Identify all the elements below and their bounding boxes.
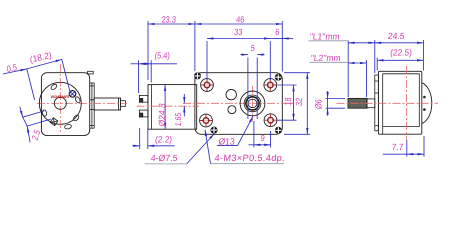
gear axis centerline xyxy=(183,102,294,104)
svg-text:"L2"mm: "L2"mm xyxy=(310,53,341,63)
svg-text:4-Ø7.5: 4-Ø7.5 xyxy=(150,153,178,163)
corner screw BR xyxy=(275,127,282,134)
corner screw TL xyxy=(194,72,201,79)
motor axis centerline xyxy=(137,105,200,107)
diagonal dimension 0.5 / (18.2) xyxy=(3,50,71,100)
svg-text:32: 32 xyxy=(294,97,304,106)
vertical centerline xyxy=(59,64,61,134)
output shaft (left view) xyxy=(94,98,125,110)
terminal 2 xyxy=(139,110,147,117)
mounting boss BL xyxy=(200,114,213,127)
terminal dot 2 xyxy=(423,108,426,111)
svg-text:"L1"mm: "L1"mm xyxy=(309,31,340,41)
gearbox housing (top view) xyxy=(195,73,282,135)
svg-text:7.7: 7.7 xyxy=(391,142,404,152)
output boss circles xyxy=(240,91,265,116)
(2.2) dimension xyxy=(133,128,175,149)
9 dimension xyxy=(249,121,271,148)
svg-text:WONSMART: WONSMART xyxy=(51,95,71,99)
top-right corner step xyxy=(88,71,94,74)
4-M3 label xyxy=(205,130,286,164)
inner recess rect xyxy=(383,74,420,134)
brush box square xyxy=(50,118,58,126)
dia 24.3 dimension xyxy=(157,85,167,130)
svg-text:(5.4): (5.4) xyxy=(154,51,170,61)
motor body (middle view) xyxy=(148,85,197,130)
shaft centerline xyxy=(337,102,439,104)
diagonal dimension 2.5 xyxy=(20,107,51,143)
4-dia7.5 label xyxy=(145,134,215,164)
flange (left view right side) xyxy=(90,83,95,128)
5 dimension xyxy=(241,43,265,119)
svg-text:Ø13: Ø13 xyxy=(218,136,235,146)
center bearing circle xyxy=(54,97,66,109)
dia 6 dimension xyxy=(314,91,345,116)
svg-text:(2.2): (2.2) xyxy=(155,134,173,144)
(22.5) dimension xyxy=(377,47,423,70)
svg-text:24.5: 24.5 xyxy=(387,31,405,41)
motor end cap arc xyxy=(422,83,432,124)
L1 label and dimension xyxy=(309,31,375,97)
mounting boss BR xyxy=(264,114,277,127)
motor can circle xyxy=(39,82,81,124)
housing (side view) xyxy=(378,71,421,134)
terminal with blue cross xyxy=(69,91,76,98)
mounting boss TL xyxy=(201,79,214,92)
vent oval C (left) xyxy=(42,109,47,116)
33 / 6 dimension xyxy=(207,27,293,80)
dia 13 label xyxy=(217,116,253,146)
vent oval B xyxy=(74,96,81,104)
corner screw TR xyxy=(275,74,282,81)
1.65 dimension xyxy=(173,94,184,127)
svg-text:18: 18 xyxy=(283,97,293,106)
flange plate (side view) xyxy=(375,75,379,131)
knurled shaft xyxy=(348,98,367,108)
vent oval D (bottom) xyxy=(64,124,72,130)
svg-text:Ø24.3: Ø24.3 xyxy=(157,103,167,127)
terminal 1 xyxy=(139,95,147,102)
(5.4) dimension xyxy=(131,51,178,93)
mounting boss TR xyxy=(264,79,277,92)
idler circle lower xyxy=(228,106,236,114)
svg-text:4-M3×P0.5.4dp.: 4-M3×P0.5.4dp. xyxy=(214,153,286,163)
23.3 / 46 dimension xyxy=(148,15,282,80)
18 dimension xyxy=(278,85,297,120)
svg-text:33: 33 xyxy=(234,27,243,37)
vertical centerline xyxy=(405,66,407,140)
svg-text:(22.5): (22.5) xyxy=(390,47,413,57)
vent oval A (top) xyxy=(50,83,58,90)
7.7 dimension xyxy=(383,136,424,157)
motor cap seam xyxy=(150,85,152,130)
gearbox body (left view) xyxy=(41,73,89,136)
32 dimension xyxy=(284,73,310,135)
shaft centerline xyxy=(37,103,127,105)
svg-text:Ø6: Ø6 xyxy=(314,98,324,109)
boss vertical centerline xyxy=(252,86,254,123)
corner screw BL xyxy=(211,127,218,134)
svg-text:46: 46 xyxy=(236,15,245,25)
terminal dot 1 xyxy=(423,96,426,99)
L2 label and dimension xyxy=(310,53,367,97)
svg-text:23.3: 23.3 xyxy=(161,15,177,25)
vent oval E xyxy=(73,114,80,122)
svg-text:1.65: 1.65 xyxy=(173,112,183,126)
idler circle upper xyxy=(226,89,236,99)
24.5 dimension xyxy=(375,31,424,73)
plain shaft section xyxy=(367,99,375,108)
